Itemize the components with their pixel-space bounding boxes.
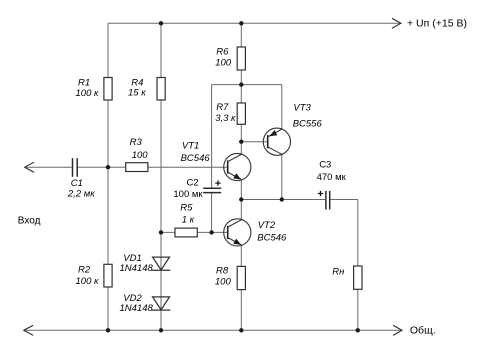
svg-text:C2: C2 — [187, 178, 199, 189]
svg-text:R8: R8 — [216, 266, 229, 277]
svg-text:R5: R5 — [180, 203, 193, 214]
svg-text:1N4148: 1N4148 — [120, 263, 154, 274]
svg-text:VT1: VT1 — [182, 140, 199, 151]
svg-text:VT3: VT3 — [293, 102, 311, 113]
svg-text:100 к: 100 к — [76, 276, 99, 287]
svg-text:Вход: Вход — [18, 216, 41, 227]
svg-text:Общ.: Общ. — [410, 324, 436, 336]
svg-text:100: 100 — [215, 277, 232, 288]
svg-text:100: 100 — [132, 150, 149, 161]
svg-text:BC546: BC546 — [257, 232, 287, 243]
svg-text:C3: C3 — [319, 159, 331, 170]
svg-text:470 мк: 470 мк — [317, 172, 347, 183]
svg-text:100: 100 — [215, 57, 232, 68]
svg-text:C1: C1 — [71, 178, 83, 189]
svg-text:R6: R6 — [216, 47, 229, 58]
svg-text:BC556: BC556 — [293, 119, 323, 130]
svg-text:100 мк: 100 мк — [173, 189, 203, 200]
svg-text:100 к: 100 к — [76, 88, 99, 99]
svg-text:Rн: Rн — [332, 267, 345, 278]
svg-text:1N4148: 1N4148 — [120, 303, 154, 314]
svg-text:R7: R7 — [216, 102, 229, 113]
svg-text:VT2: VT2 — [258, 220, 276, 231]
svg-text:+ Uп (+15 В): + Uп (+15 В) — [407, 17, 467, 29]
svg-text:2,2 мк: 2,2 мк — [67, 188, 95, 199]
svg-text:R2: R2 — [78, 265, 91, 276]
svg-text:1 к: 1 к — [182, 215, 195, 226]
svg-text:15 к: 15 к — [128, 87, 146, 98]
svg-text:3,3 к: 3,3 к — [215, 113, 236, 124]
svg-text:BC546: BC546 — [181, 153, 211, 164]
svg-text:R3: R3 — [130, 137, 143, 148]
